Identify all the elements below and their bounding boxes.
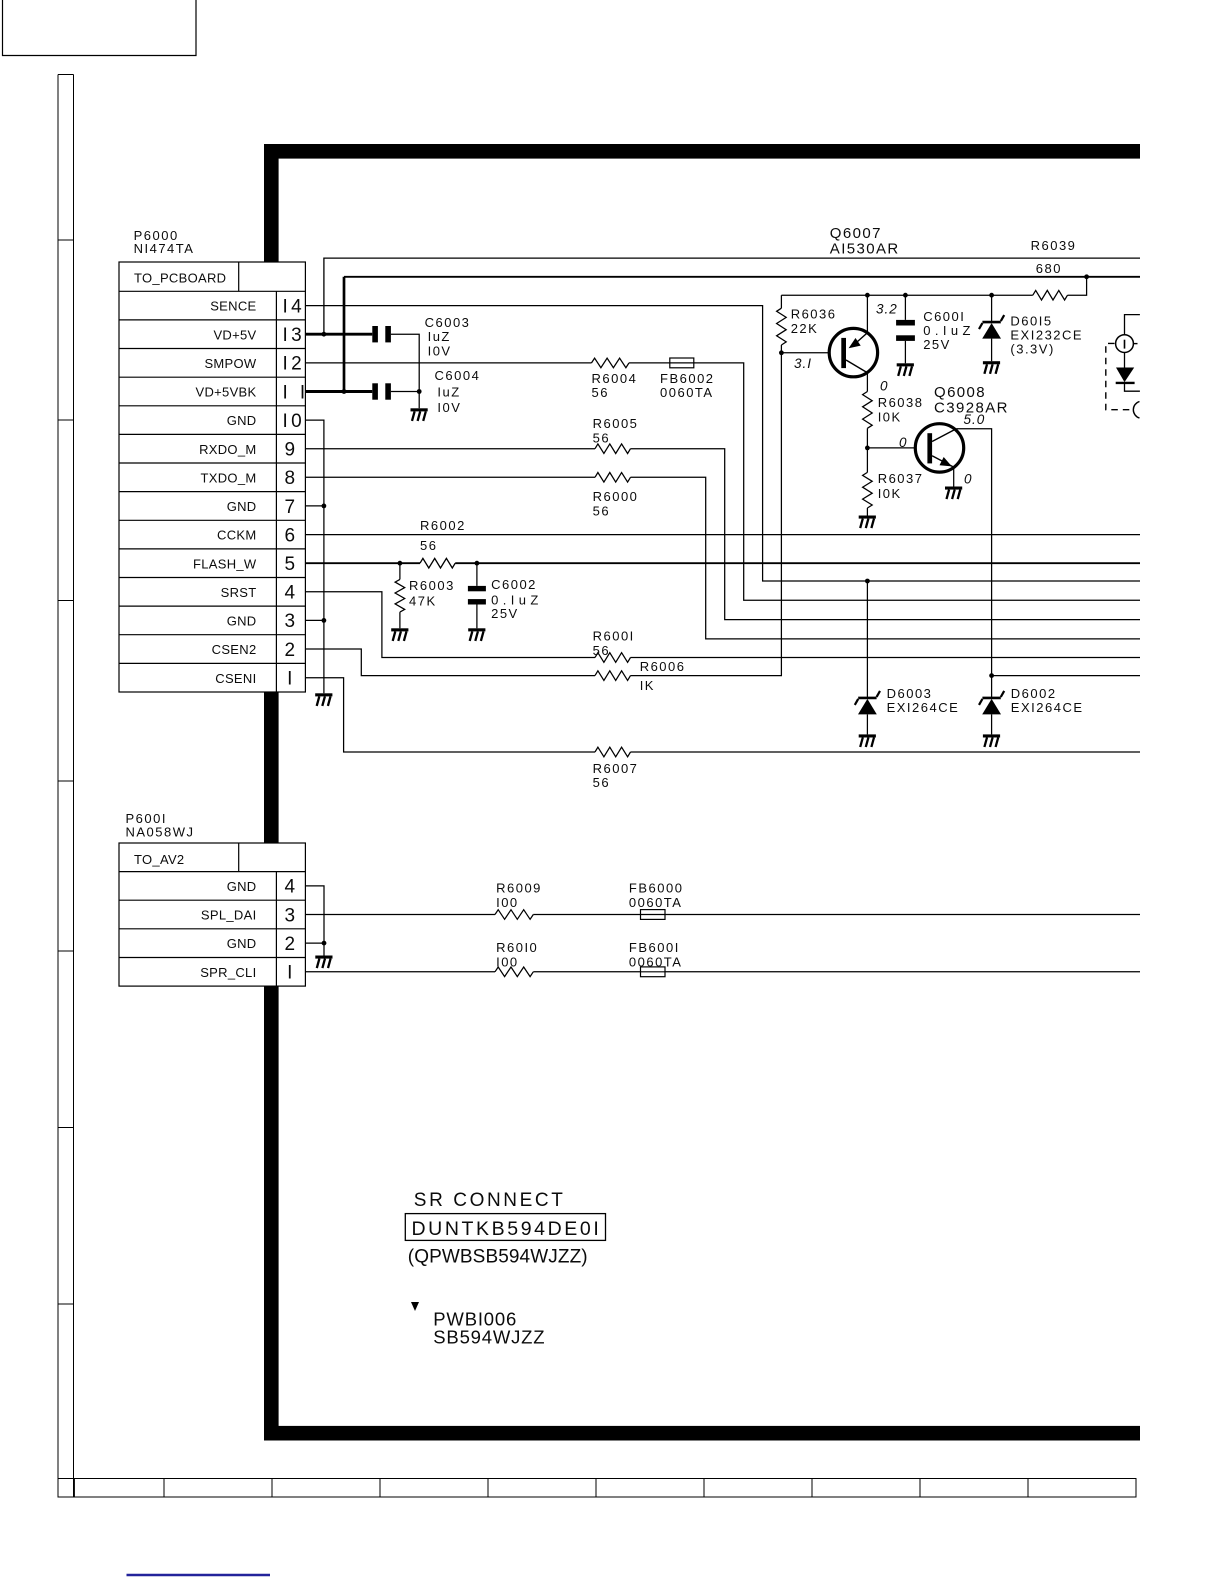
ground for R6037 xyxy=(859,516,876,529)
svg-text:5.0: 5.0 xyxy=(964,412,986,427)
svg-text:CCKM: CCKM xyxy=(217,528,256,543)
resistor R6003 pulldown xyxy=(395,563,455,628)
resistor R6005 xyxy=(593,416,639,453)
wire VD+5VBK pin11 stub (bold) xyxy=(305,390,372,393)
blue underline mark bottom-left xyxy=(127,1574,271,1576)
wire R6001 to edge xyxy=(631,657,1141,659)
wire SMPOW pin12 lead xyxy=(305,362,591,364)
transistor Q6008 (NPN C3928AR) xyxy=(915,384,1009,472)
wire FLASH_W bus right part (bold) xyxy=(455,562,1140,564)
svg-text:FB6000: FB6000 xyxy=(629,880,684,895)
wire CSEN2 pin2 drop xyxy=(305,649,595,676)
svg-text:2: 2 xyxy=(285,934,299,955)
svg-text:8: 8 xyxy=(285,468,299,489)
svg-text:680: 680 xyxy=(1036,261,1062,276)
P6000 reference label xyxy=(134,228,195,256)
P6000 pin 2 label CSEN2 xyxy=(212,640,299,661)
zener diode D6002 xyxy=(979,686,1084,735)
bottom zone ruler strip xyxy=(58,1479,1136,1498)
svg-text:SMPOW: SMPOW xyxy=(204,356,256,371)
svg-text:47K: 47K xyxy=(409,594,437,609)
P6000 pin 6 label CCKM xyxy=(217,525,298,546)
svg-text:VD+5V: VD+5V xyxy=(213,327,256,342)
svg-text:CSEN2: CSEN2 xyxy=(212,642,257,657)
wire VD+5V pin13 stub (bold) xyxy=(305,333,372,336)
svg-text:R6003: R6003 xyxy=(409,578,455,593)
junction D6003 on SENCE bus xyxy=(865,579,870,584)
svg-text:R6009: R6009 xyxy=(496,880,542,895)
svg-text:2: 2 xyxy=(285,640,299,661)
P6000 pin 7 label GND xyxy=(227,497,299,518)
wire FB6000 to edge xyxy=(665,914,1140,916)
ground for D6015 xyxy=(983,361,1000,374)
label 3.2 xyxy=(876,302,898,317)
wire VD+5V riser and top bus xyxy=(324,258,1140,334)
wire SMPOW drop to bus xyxy=(694,363,1140,600)
P6000 pin 13 label VD+5V xyxy=(213,325,305,346)
wire R6009 to FB6000 xyxy=(533,914,640,916)
svg-text:I0V: I0V xyxy=(437,400,461,415)
svg-text:R6000: R6000 xyxy=(593,489,639,504)
svg-text:SPL_DAI: SPL_DAI xyxy=(201,908,257,923)
svg-text:I0K: I0K xyxy=(878,486,902,501)
junction pin13 riser xyxy=(322,332,327,337)
P6001 pin 4 label GND xyxy=(227,877,299,898)
svg-text:NA058WJ: NA058WJ xyxy=(126,824,195,839)
thick schematic border frame xyxy=(264,144,1140,1441)
transistor Q6007 (PNP A1530AR) xyxy=(829,225,899,377)
wire P6001 pin2 stub xyxy=(305,942,324,944)
svg-text:GND: GND xyxy=(227,879,257,894)
label 0 at Q6008 base xyxy=(899,435,908,450)
svg-text:4: 4 xyxy=(285,877,299,898)
P6000 pin 5 label FLASH_W xyxy=(193,554,299,575)
resistor R6002 xyxy=(420,518,466,568)
ground for P6001 xyxy=(315,956,332,969)
svg-text:IuZ: IuZ xyxy=(428,329,451,344)
svg-text:I: I xyxy=(287,669,296,690)
wire P6001 gnd drop xyxy=(323,943,325,955)
wire C6004 right lead xyxy=(391,391,419,393)
svg-text:I0: I0 xyxy=(283,411,306,432)
P6000 header text TO_PCBOARD xyxy=(134,271,226,286)
wire R6006 up to Q6007 base node xyxy=(631,353,782,676)
svg-text:I0K: I0K xyxy=(878,410,902,425)
svg-text:IK: IK xyxy=(640,678,655,693)
label 0 below Q6007 xyxy=(880,379,889,394)
svg-text:D6003: D6003 xyxy=(887,686,933,701)
wire R6010 to FB6001 xyxy=(533,971,640,973)
label PWB1006 SB594WJZZ xyxy=(433,1308,545,1347)
P6001 pin 2 label GND xyxy=(227,934,299,955)
zener diode D6015 xyxy=(979,295,1083,361)
junction pin11 riser xyxy=(342,389,347,394)
svg-text:DUNTKB594DE0I: DUNTKB594DE0I xyxy=(412,1218,602,1240)
ground for C6001 xyxy=(897,363,914,376)
svg-text:GND: GND xyxy=(227,413,257,428)
resistor R6006 xyxy=(595,659,686,693)
svg-text:I00: I00 xyxy=(496,955,519,970)
P6001 reference label xyxy=(126,811,195,840)
ground for D6003 xyxy=(859,734,876,747)
ferrite bead FB6000 xyxy=(629,880,684,919)
wire FB6001 to edge xyxy=(665,971,1140,973)
svg-text:EXI264CE: EXI264CE xyxy=(887,700,960,715)
svg-text:0: 0 xyxy=(880,379,889,394)
junction pin3 gnd xyxy=(322,618,327,623)
wire VD+5VBK bus xyxy=(344,276,1140,278)
svg-text:0: 0 xyxy=(899,435,908,450)
wire GND pin7 stub xyxy=(305,505,324,507)
svg-text:R6005: R6005 xyxy=(593,416,639,431)
wire RXDO_M pin9 lead xyxy=(305,448,595,450)
svg-text:RXDO_M: RXDO_M xyxy=(199,442,256,457)
junction Q6007 base node xyxy=(779,350,784,355)
svg-text:I0V: I0V xyxy=(428,344,452,359)
svg-text:SRST: SRST xyxy=(221,585,257,600)
wire RXDO_M drop to bus xyxy=(631,449,1141,620)
wire Q6007 emitter riser xyxy=(866,295,868,332)
wire R6004 to FB6002 xyxy=(629,362,670,364)
P6000 pin 11 label VD+5VBK xyxy=(196,382,309,403)
P6000 pin 9 label RXDO_M xyxy=(199,440,298,461)
svg-text:GND: GND xyxy=(227,499,257,514)
wire Q6007 collector down xyxy=(866,373,868,391)
ground for C6002 xyxy=(468,628,485,641)
resistor R6000 xyxy=(593,473,639,519)
svg-text:I2: I2 xyxy=(283,354,306,375)
svg-text:56: 56 xyxy=(593,775,610,790)
svg-text:0: 0 xyxy=(964,472,973,487)
svg-text:FB6002: FB6002 xyxy=(660,371,715,386)
label 5.0 xyxy=(964,412,986,427)
svg-text:6: 6 xyxy=(285,525,299,546)
svg-text:56: 56 xyxy=(593,643,610,658)
wire SPR_CLI pin1 lead xyxy=(305,971,495,973)
svg-text:I4: I4 xyxy=(283,296,306,317)
svg-text:0060TA: 0060TA xyxy=(660,385,714,400)
svg-text:0060TA: 0060TA xyxy=(629,955,683,970)
ground for R6003 xyxy=(391,628,408,641)
resistor R6036 xyxy=(777,295,837,353)
resistor R6010 xyxy=(495,940,538,977)
svg-text:3: 3 xyxy=(285,611,299,632)
svg-text:3.2: 3.2 xyxy=(876,302,898,317)
P6001 pin 3 label SPL_DAI xyxy=(201,905,299,926)
svg-text:5: 5 xyxy=(285,554,299,575)
capacitor C6002 xyxy=(468,563,543,628)
P6001 pin 1 label SPR_CLI xyxy=(200,963,296,984)
junction R6003 tap xyxy=(398,561,403,566)
board code box DUNTKB594DE01 xyxy=(405,1214,605,1241)
svg-text:TXDO_M: TXDO_M xyxy=(201,470,257,485)
ferrite bead FB6001 xyxy=(629,940,683,977)
resistor R6007 xyxy=(593,747,639,790)
svg-text:0.IuZ: 0.IuZ xyxy=(923,323,975,338)
svg-text:GND: GND xyxy=(227,936,257,951)
svg-text:AI530AR: AI530AR xyxy=(830,240,900,257)
resistor R6037 xyxy=(863,448,924,516)
wire P6001 pin4 gnd jumper xyxy=(305,886,324,943)
junction D6015 rail xyxy=(989,293,994,298)
label 0 at Q6008 emitter xyxy=(964,472,973,487)
wire Q6008 emitter to ground xyxy=(953,468,955,487)
ground for Q6008 emitter xyxy=(945,487,962,500)
svg-text:C6004: C6004 xyxy=(435,368,481,383)
svg-text:R6036: R6036 xyxy=(791,307,837,322)
P6000 pin 4 label SRST xyxy=(221,583,299,604)
svg-text:7: 7 xyxy=(285,497,299,518)
svg-text:(3.3V): (3.3V) xyxy=(1010,342,1054,357)
wire VD+5VBK riser (bold) xyxy=(343,277,346,392)
svg-text:3: 3 xyxy=(285,905,299,926)
svg-text:C6003: C6003 xyxy=(425,315,471,330)
svg-text:22K: 22K xyxy=(791,321,819,336)
svg-text:56: 56 xyxy=(592,385,609,400)
svg-text:D6002: D6002 xyxy=(1011,686,1057,701)
junction emitter rail xyxy=(865,293,870,298)
dashed enclosure for IR block xyxy=(1106,343,1140,418)
svg-text:R6037: R6037 xyxy=(878,471,924,486)
capacitor C6004 xyxy=(372,368,480,415)
svg-text:SB594WJZZ: SB594WJZZ xyxy=(433,1326,545,1347)
resistor R6038 xyxy=(863,392,924,448)
svg-text:R6007: R6007 xyxy=(593,761,639,776)
junction R6039 on VD+5VBK bus xyxy=(1084,274,1089,279)
svg-text:SENCE: SENCE xyxy=(210,299,256,314)
svg-text:SPR_CLI: SPR_CLI xyxy=(200,965,256,980)
svg-text:56: 56 xyxy=(420,538,437,553)
svg-text:R6039: R6039 xyxy=(1031,238,1077,253)
top-left reference box xyxy=(3,0,197,56)
svg-text:FLASH_W: FLASH_W xyxy=(193,556,257,571)
svg-text:9: 9 xyxy=(285,440,299,461)
junction C6002 tap xyxy=(475,561,480,566)
svg-text:I00: I00 xyxy=(496,895,519,910)
ground for D6002 xyxy=(983,734,1000,747)
svg-text:25V: 25V xyxy=(923,337,951,352)
svg-text:25V: 25V xyxy=(491,606,519,621)
resistor R6004 xyxy=(592,358,638,400)
wire SENCE pin14 run and drop to bus xyxy=(305,306,1140,581)
P6000 pin 8 label TXDO_M xyxy=(201,468,299,489)
svg-text:SR CONNECT: SR CONNECT xyxy=(414,1190,566,1211)
svg-text:56: 56 xyxy=(593,431,610,446)
svg-text:R6038: R6038 xyxy=(878,395,924,410)
capacitor C6001 xyxy=(896,295,975,363)
wire TXDO_M pin8 lead xyxy=(305,476,595,478)
resistor R6009 xyxy=(495,880,542,919)
wire R6007 to edge xyxy=(631,751,1141,753)
wire Q6007 emitter top rail xyxy=(781,294,991,296)
wire Q6007 base lead xyxy=(781,352,828,354)
resistor R6039 xyxy=(992,238,1087,300)
left fold ruler xyxy=(58,75,74,1498)
svg-text:R60I0: R60I0 xyxy=(496,940,538,955)
wire SRST pin4 drop xyxy=(305,592,595,658)
P6000 pin 12 label SMPOW xyxy=(204,354,305,375)
svg-text:VD+5VBK: VD+5VBK xyxy=(196,385,257,400)
connector P6001 table xyxy=(119,843,305,986)
svg-text:FB600I: FB600I xyxy=(629,940,680,955)
svg-text:3.I: 3.I xyxy=(794,356,812,371)
ground for P6000 GND pins xyxy=(315,693,332,706)
svg-text:TO_AV2: TO_AV2 xyxy=(134,852,184,867)
wire Q6008 base lead xyxy=(867,447,914,449)
wire FLASH_W pin5 bus left part (bold) xyxy=(305,562,420,564)
connector P6000 table xyxy=(119,262,305,692)
svg-text:EXI232CE: EXI232CE xyxy=(1010,328,1083,343)
junction Q6008 base node xyxy=(865,446,870,451)
junction pin7 gnd xyxy=(322,504,327,509)
svg-text:I I: I I xyxy=(283,382,309,403)
wire CSEN1 pin1 drop xyxy=(305,678,595,752)
svg-text:NI474TA: NI474TA xyxy=(134,241,195,256)
label 3.1 xyxy=(794,356,812,371)
wire GND pin3 stub xyxy=(305,619,324,621)
svg-text:I: I xyxy=(287,963,296,984)
svg-text:TO_PCBOARD: TO_PCBOARD xyxy=(134,271,226,286)
P6000 pin 10 label GND xyxy=(227,411,305,432)
svg-text:GND: GND xyxy=(227,614,257,629)
svg-text:56: 56 xyxy=(593,503,610,518)
svg-text:0060TA: 0060TA xyxy=(629,895,683,910)
svg-text:R600I: R600I xyxy=(593,628,635,643)
wire Q6008 collector to D6002 drop xyxy=(956,429,991,698)
junction C6001 rail xyxy=(903,293,908,298)
svg-text:4: 4 xyxy=(285,583,299,604)
P6001 header text TO_AV2 xyxy=(134,852,184,867)
junction P6001 gnd xyxy=(322,941,327,946)
capacitor C6003 xyxy=(372,315,470,359)
wire GND pin10 riser (pins 10-7-3) xyxy=(305,420,324,693)
svg-text:R6004: R6004 xyxy=(592,371,638,386)
svg-text:(QPWBSB594WJZZ): (QPWBSB594WJZZ) xyxy=(408,1246,588,1267)
junction C6004 ground riser xyxy=(417,389,422,394)
svg-text:C6002: C6002 xyxy=(491,577,537,592)
svg-text:R6006: R6006 xyxy=(640,659,686,674)
code (QPWBSB594WJZZ) xyxy=(408,1246,588,1267)
wire CCKM pin6 straight bus xyxy=(305,534,1140,536)
wire SPL_DAI pin3 lead xyxy=(305,914,495,916)
svg-text:IuZ: IuZ xyxy=(437,385,460,400)
svg-text:EXI264CE: EXI264CE xyxy=(1011,700,1084,715)
zener diode D6003 xyxy=(855,686,960,735)
P6000 pin 14 label SENCE xyxy=(210,296,305,317)
ground for C6003/C6004 xyxy=(411,408,428,421)
wire D6002 tap to edge xyxy=(992,675,1140,677)
current source / IR detector block (cut at page edge) xyxy=(1116,315,1140,392)
wire TXDO_M drop to bus xyxy=(631,477,1141,639)
svg-text:CSENI: CSENI xyxy=(215,671,256,686)
junction D6002 tap xyxy=(989,673,994,678)
resistor R6001 xyxy=(593,628,635,662)
svg-text:D60I5: D60I5 xyxy=(1010,314,1052,329)
P6000 pin 3 label GND xyxy=(227,611,299,632)
svg-text:C600I: C600I xyxy=(923,309,965,324)
wire C6003 right to ground riser xyxy=(391,334,419,408)
svg-text:R6002: R6002 xyxy=(420,518,466,533)
svg-text:I3: I3 xyxy=(283,325,306,346)
title SR CONNECT xyxy=(414,1190,566,1211)
P6000 pin 1 label CSENI xyxy=(215,669,296,690)
ferrite bead FB6002 xyxy=(660,358,715,400)
small marker glyph xyxy=(411,1302,419,1311)
wire D6003 drop xyxy=(866,581,868,698)
